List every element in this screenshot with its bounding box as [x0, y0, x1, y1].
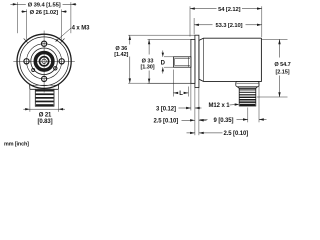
ext line 198.9 down	[198, 81, 200, 135]
dim L ext right	[187, 87, 189, 97]
svg-text:[1.42]: [1.42]	[114, 52, 128, 58]
dim Ø21 extension right	[57, 90, 59, 112]
flange Ø36	[195, 35, 199, 87]
leader 4xM3 arrow	[55, 39, 58, 42]
shaft inner lines	[174, 58, 190, 60]
dim Ø33 arrows	[148, 39, 150, 44]
dim Ø39.4 line right	[63, 3, 77, 5]
shaft inner end tick	[187, 57, 189, 67]
M3 hole top	[42, 41, 47, 46]
connector thread bands	[240, 89, 256, 106]
dim 54 line	[190, 8, 217, 10]
connector taper	[237, 87, 257, 89]
dim 9 line right	[237, 119, 248, 121]
dim Ø39.4 arrow left	[13, 3, 18, 5]
dim Ø21 line	[23, 108, 30, 110]
svg-text:3 [0.12]: 3 [0.12]	[156, 106, 176, 112]
body front edge line	[203, 38, 205, 81]
connector thread block	[35, 89, 54, 106]
dim 2.5 bottom right line	[199, 132, 223, 134]
dim Ø26 extension left	[26, 9, 28, 39]
leader 4xM3	[56, 28, 71, 41]
dim D top arrow line	[162, 51, 164, 57]
dim D top ext	[164, 56, 173, 58]
svg-text:[1.30]: [1.30]	[140, 64, 154, 70]
dim 53.3 arrows	[194, 24, 199, 26]
dim Ø36 arrows	[129, 35, 131, 40]
connector cap	[236, 81, 259, 86]
encoder flange outer circle	[17, 34, 71, 88]
dim Ø26 arrow left	[22, 10, 27, 12]
dim Ø26 arrow right	[61, 10, 66, 12]
screw bottom-right	[54, 67, 57, 70]
dim 54 arrows	[190, 7, 195, 9]
dim Ø26 line right tail	[61, 11, 66, 13]
svg-text:[0.83]: [0.83]	[37, 119, 52, 125]
tick top-left diagonal	[24, 39, 28, 43]
dim Ø21 arrow right	[58, 108, 63, 110]
dim Ø26 line left tail	[21, 11, 27, 13]
dim 3 line left	[179, 107, 187, 109]
shaft inner rect left edge	[173, 59, 175, 66]
ext connector axis down	[247, 108, 249, 123]
svg-text:Ø 39.4 [1.55]: Ø 39.4 [1.55]	[28, 3, 61, 9]
svg-text:4 x M3: 4 x M3	[72, 26, 91, 32]
svg-text:M12 x 1: M12 x 1	[209, 103, 231, 109]
dim 2.5 left right tail	[199, 119, 207, 121]
ext line 190.9 down	[190, 83, 192, 110]
svg-text:Ø 54.7: Ø 54.7	[274, 62, 290, 68]
clamp ring Ø33	[191, 39, 195, 83]
dim 53.3 line	[194, 24, 212, 26]
dim Ø33 line	[148, 39, 150, 54]
svg-text:mm [inch]: mm [inch]	[4, 142, 29, 148]
dim Ø54.7 top extension	[262, 38, 288, 40]
svg-text:[2.15]: [2.15]	[275, 69, 289, 75]
dim Ø26 extension right	[60, 9, 62, 39]
M3 hole bottom	[42, 76, 47, 81]
ext 259 down	[258, 81, 260, 122]
svg-text:9 [0.35]: 9 [0.35]	[214, 118, 234, 124]
dim Ø36 line	[129, 35, 131, 44]
dim D bottom ext	[164, 66, 173, 68]
dim L arrows	[173, 92, 178, 94]
vertical centreline	[43, 31, 45, 93]
dim D bottom arrow line	[162, 67, 164, 73]
dim Ø39.4 extension left	[17, 2, 19, 33]
dim 9 left tail	[200, 119, 208, 121]
M3 hole right	[59, 59, 64, 64]
body	[199, 38, 262, 81]
dim Ø54.7 arrows	[278, 39, 280, 44]
dim Ø36 top extension	[128, 34, 194, 36]
connector cap inner line	[237, 82, 259, 84]
thread bands	[36, 90, 54, 106]
dim Ø54.7 line	[279, 39, 281, 57]
svg-text:2.5 [0.10]: 2.5 [0.10]	[223, 131, 248, 137]
dim 9 right tail	[259, 119, 267, 121]
dim Ø39.4 line left	[10, 3, 25, 5]
dim 3 right tail	[195, 107, 202, 109]
connector collar front view	[30, 84, 59, 90]
horizontal centreline	[13, 60, 75, 62]
shaft center hole	[42, 59, 46, 63]
tick top-right diagonal	[61, 39, 65, 43]
screw bottom-left	[32, 69, 35, 72]
body circle inner	[20, 37, 69, 86]
dim 2.5 bottom left arrow	[187, 132, 195, 134]
svg-text:54 [2.12]: 54 [2.12]	[218, 7, 240, 13]
dim L ext left	[172, 70, 174, 97]
bolt circle	[26, 44, 61, 79]
leader M12x1	[230, 104, 236, 106]
dim Ø21 extension left	[29, 90, 31, 112]
shaft clamp bold ring	[35, 53, 53, 71]
svg-text:L: L	[179, 91, 183, 97]
dim Ø21 arrow left	[25, 108, 30, 110]
ext line 194.9 down	[194, 88, 196, 136]
dim Ø54.7 bottom extension	[257, 96, 288, 98]
dim 53.3 ext left	[193, 18, 195, 34]
shaft circle	[40, 57, 49, 66]
shaft	[173, 57, 191, 67]
svg-text:Ø 26 [1.02]: Ø 26 [1.02]	[30, 10, 58, 16]
collar top line	[30, 84, 58, 86]
dim Ø39.4 extension right	[70, 2, 72, 33]
dim 2.5 left line	[182, 119, 195, 121]
dim Ø39.4 arrow right	[71, 3, 76, 5]
svg-text:Ø 21: Ø 21	[39, 113, 52, 119]
connector thread body	[239, 88, 256, 106]
dim Ø33 bottom extension	[148, 82, 191, 84]
svg-text:53.3 [2.10]: 53.3 [2.10]	[216, 23, 243, 29]
M3 hole left	[24, 59, 29, 64]
svg-text:2.5 [0.10]: 2.5 [0.10]	[153, 119, 178, 125]
dim L line	[173, 92, 177, 94]
dim 54 ext left	[189, 6, 191, 36]
dim Ø36 bottom extension	[128, 82, 194, 84]
dim 54/53.3 ext right	[261, 6, 263, 37]
dim Ø33 top extension	[148, 38, 191, 40]
hub ring thin	[31, 48, 58, 75]
